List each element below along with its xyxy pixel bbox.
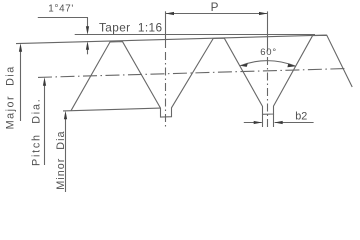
arrow 60deg arc left end	[240, 63, 248, 67]
arrow b2 right (points left)	[274, 121, 283, 124]
minor diameter line	[63, 108, 161, 111]
arrow 60deg arc right end	[287, 64, 295, 68]
60 degree arc	[240, 61, 296, 67]
groove 1 centerline solid part / P left extension	[165, 11, 167, 48]
svg-text:1°47': 1°47'	[48, 4, 74, 15]
b2 left tail	[244, 122, 262, 124]
svg-text:P: P	[211, 1, 219, 14]
pitch dia leader line	[44, 81, 46, 165]
groove 2 centerline solid part / P right extension	[267, 11, 269, 51]
b2 right wall extension	[273, 114, 275, 127]
pitch line (dash-dot)	[38, 69, 345, 78]
b2 right tail	[275, 122, 314, 124]
b2 left wall extension	[262, 114, 264, 127]
svg-text:Major Dia: Major Dia	[5, 65, 17, 129]
groove 2 centerline dash-dot	[267, 57, 269, 130]
svg-text:Pitch Dia.: Pitch Dia.	[30, 98, 42, 166]
1deg47 vertical lower segment	[87, 45, 89, 55]
arrow minor dia up	[64, 111, 67, 120]
horizontal taper reference line	[75, 34, 315, 36]
thread profile outline	[71, 35, 352, 117]
svg-text:Taper 1:16: Taper 1:16	[99, 20, 162, 34]
P dimension line	[166, 13, 268, 15]
arrow P left	[166, 12, 175, 15]
svg-text:Minor Dia: Minor Dia	[55, 130, 67, 189]
arrow pitch dia up	[43, 77, 46, 86]
minor dia leader line	[65, 114, 67, 192]
groove 1 centerline dash-dot	[165, 52, 167, 129]
svg-text:b2: b2	[295, 111, 307, 123]
arrow 1deg47 down	[86, 26, 89, 35]
major diameter taper envelope line	[16, 35, 327, 44]
major dia leader line	[20, 48, 22, 121]
svg-text:60°: 60°	[260, 47, 277, 58]
arrow 1deg47 up	[86, 41, 89, 50]
1deg47 dimension horizontal line	[38, 17, 88, 19]
arrow major dia up	[19, 43, 22, 52]
1deg47 vertical upper segment	[87, 18, 89, 32]
arrow P right	[259, 12, 268, 15]
arrow b2 left (points right)	[254, 121, 263, 124]
